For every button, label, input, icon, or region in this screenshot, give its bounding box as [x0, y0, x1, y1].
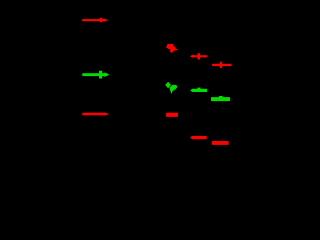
green arrow C2 (pointing left, with plus bump): [190, 88, 207, 93]
red arrow D1 (pointing right, with plus marker): [212, 62, 231, 68]
red arrow A3 (pointing right, no marker): [82, 112, 109, 115]
red arrow A1 (top left, pointing right): [82, 17, 108, 22]
green bar D2 (thick, with plus bump): [211, 96, 230, 101]
red arrow B1 (diagonal blob, pointing down-right): [167, 44, 178, 53]
red bar D3: [212, 141, 229, 145]
red arrow C1 (pointing left, with plus marker): [190, 53, 207, 59]
red bar B3: [166, 113, 178, 117]
red arrow C3 (pointing left): [190, 136, 207, 140]
green arrow B2 (V-shaped, diamond marker plus down-left arrow): [165, 82, 177, 94]
green arrow A2 (pointing right, with plus marker): [82, 71, 109, 79]
